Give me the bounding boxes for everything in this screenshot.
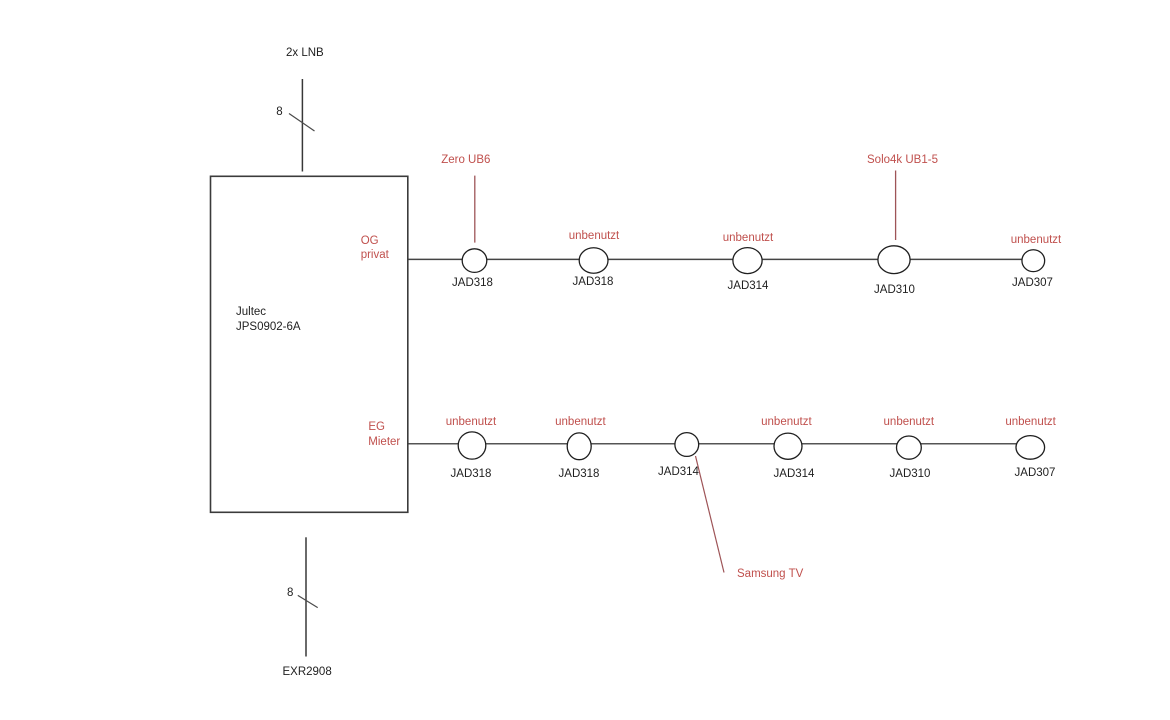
tap T1 JAD318 (OG row): [462, 249, 487, 273]
label: OG privat (red): [361, 236, 379, 248]
wire: EG Mieter trunk line: [408, 443, 1017, 445]
tap B3 JAD314 (EG row): [675, 433, 699, 457]
label: JAD318 under B1: [451, 469, 492, 481]
label: unbenutzt above B1: [446, 417, 497, 429]
label: Samsung TV (red): [737, 569, 803, 581]
label: unbenutzt above B2: [555, 417, 606, 429]
label: JAD318 under T2: [573, 277, 614, 289]
tap B4 JAD314 (EG row): [774, 433, 802, 459]
label: Jultec JPS0902-6A: [236, 307, 266, 319]
label: unbenutzt above T5: [1011, 235, 1062, 247]
label: unbenutzt above T2: [569, 231, 620, 243]
label: EXR2908: [283, 667, 332, 679]
label: 8 (top bus width): [276, 107, 282, 119]
label: JAD318 under B2: [559, 469, 600, 481]
label: JAD310 under B5: [890, 469, 931, 481]
tap B5 JAD310 (EG row): [897, 436, 922, 459]
tap B6 JAD307 (EG row): [1016, 436, 1045, 460]
wire: cascade output line to EXR2908: [305, 537, 307, 656]
multiswitch box Jultec JPS0902-6A: [211, 176, 408, 512]
tap T4 JAD310 (OG row): [878, 246, 910, 274]
label: unbenutzt above B5: [884, 417, 935, 429]
label: JAD307 under B6: [1015, 468, 1056, 480]
tap T5 JAD307 (OG row): [1022, 250, 1045, 272]
label: 2x LNB: [286, 48, 324, 60]
label: unbenutzt above B6: [1005, 417, 1056, 429]
tap T3 JAD314 (OG row): [733, 248, 762, 274]
label: unbenutzt above B4: [761, 417, 812, 429]
label: JAD314 under B4: [774, 469, 815, 481]
label: JAD318 under T1: [452, 278, 493, 290]
tap B1 JAD318 (EG row): [458, 432, 486, 459]
tap T2 JAD318 (OG row): [579, 248, 608, 274]
label: 8 (bottom bus width): [287, 588, 293, 600]
label: JAD310 under T4: [874, 285, 915, 297]
label: EG Mieter (red): [368, 422, 385, 434]
red annotation line: Solo4k UB1-5 to JAD310 tap: [895, 171, 897, 241]
label: JAD314 under T3: [728, 281, 769, 293]
bus-width slash marker (top, 8 wires): [289, 114, 315, 132]
label: JAD307 under T5: [1012, 278, 1053, 290]
label: Zero UB6 (red): [441, 155, 490, 167]
wire: OG privat trunk line: [408, 258, 1022, 260]
red annotation line: Samsung TV to JAD314 tap: [696, 456, 725, 573]
wire: LNB input line into multiswitch: [301, 79, 303, 172]
red annotation line: Zero UB6 to first tap: [474, 176, 476, 243]
label: Solo4k UB1-5 (red): [867, 155, 938, 167]
label: JAD314 under B3: [658, 467, 699, 479]
tap B2 JAD318 (EG row): [567, 433, 591, 460]
bus-width slash marker (bottom, 8 wires): [298, 595, 318, 607]
label: unbenutzt above T3: [723, 233, 774, 245]
